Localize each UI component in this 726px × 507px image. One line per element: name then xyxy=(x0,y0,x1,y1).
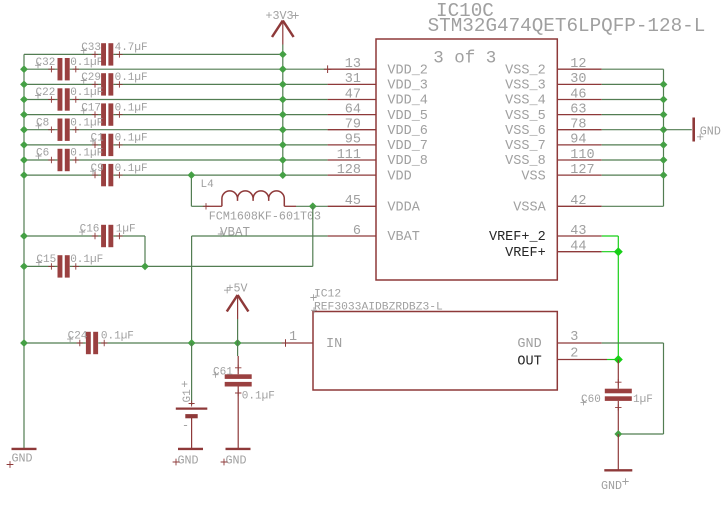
svg-text:C60: C60 xyxy=(581,394,601,406)
junction right bus row 7 xyxy=(660,156,668,164)
capacitor C61 xyxy=(225,374,252,379)
capacitor C24 xyxy=(86,332,91,354)
junction left bus C15 row xyxy=(20,263,28,271)
wire to ground xyxy=(617,434,619,470)
junction right bus row 6 xyxy=(660,141,668,149)
svg-text:0.1µF: 0.1µF xyxy=(70,87,103,99)
svg-text:VDD_4: VDD_4 xyxy=(387,94,428,109)
pin stub VSS row 7 xyxy=(557,159,601,161)
svg-text:GND: GND xyxy=(601,479,622,493)
wire pin3 right xyxy=(602,342,664,344)
svg-text:47: 47 xyxy=(345,87,361,102)
svg-text:0.1µF: 0.1µF xyxy=(115,133,148,145)
svg-text:31: 31 xyxy=(345,72,361,87)
wire VSS row 3 to bus xyxy=(602,99,664,101)
wire row pin right 1 xyxy=(70,68,328,70)
svg-text:0.1µF: 0.1µF xyxy=(101,331,134,343)
battery G1 xyxy=(191,343,193,405)
wire +3V3 bus xyxy=(282,45,284,176)
svg-text:OUT: OUT xyxy=(517,354,541,369)
capacitor C17 xyxy=(101,103,106,125)
wire to GND symbol right xyxy=(664,129,692,131)
capacitor C6 xyxy=(58,149,63,171)
pin stub GND 3 xyxy=(557,342,601,344)
svg-text:C61: C61 xyxy=(213,366,233,378)
svg-text:VSS_5: VSS_5 xyxy=(505,109,546,124)
svg-text:GND: GND xyxy=(517,337,541,352)
junction VDDA node xyxy=(309,202,317,210)
svg-text:4.7µF: 4.7µF xyxy=(115,42,148,54)
junction row128 / L4 branch xyxy=(188,171,196,179)
pin stub VSS row 1 xyxy=(557,68,601,70)
svg-text:REF3033AIDBZRDBZ3-L: REF3033AIDBZRDBZ3-L xyxy=(314,302,443,314)
wire row pin right 3 xyxy=(70,99,328,101)
svg-text:GND: GND xyxy=(700,124,721,138)
svg-text:6: 6 xyxy=(353,224,361,239)
wire VREF+ to vertical xyxy=(602,251,619,253)
svg-text:VDD_8: VDD_8 xyxy=(387,154,428,169)
pin stub OUT 2 xyxy=(557,359,607,361)
svg-text:FCM1608KF-601T03: FCM1608KF-601T03 xyxy=(209,210,321,224)
+3V3 supply symbol xyxy=(272,21,294,38)
svg-text:GND: GND xyxy=(226,454,247,468)
op IC10C box xyxy=(376,39,557,280)
wire OUT down to C60 xyxy=(617,360,619,389)
svg-text:13: 13 xyxy=(345,57,361,72)
svg-text:VSS_6: VSS_6 xyxy=(505,124,546,139)
junction left bus row 5 xyxy=(20,126,28,134)
svg-text:64: 64 xyxy=(345,102,361,117)
svg-text:3 of 3: 3 of 3 xyxy=(433,49,496,69)
capacitor C33 xyxy=(101,43,106,65)
wire C61 to ground xyxy=(237,387,239,449)
pin stub VSS row 2 xyxy=(557,83,601,85)
svg-text:VDD: VDD xyxy=(387,169,411,184)
wire C24 row right to IN xyxy=(98,342,285,344)
svg-text:IC12: IC12 xyxy=(314,289,341,301)
junction left bus row 7 xyxy=(20,156,28,164)
pin stub VBAT xyxy=(328,235,376,237)
wire VBAT down to battery row xyxy=(191,236,193,343)
junction +3V3 bus row 4 xyxy=(279,111,287,119)
svg-text:L4: L4 xyxy=(201,179,215,191)
wire VSS row 8 to bus xyxy=(602,174,664,176)
svg-text:C6: C6 xyxy=(36,148,49,160)
junction left bus row 8 xyxy=(20,171,28,179)
wire OUT to node xyxy=(607,359,618,361)
svg-text:0.1µF: 0.1µF xyxy=(115,102,148,114)
wire row pin right 7 xyxy=(70,159,328,161)
junction right bus row 8 xyxy=(660,171,668,179)
capacitor C60 xyxy=(605,389,632,394)
svg-text:VSS_4: VSS_4 xyxy=(505,94,546,109)
wire VDDA down to C15 row xyxy=(312,206,314,266)
svg-text:+5V: +5V xyxy=(227,281,248,295)
svg-text:111: 111 xyxy=(337,148,361,163)
ground left bus xyxy=(12,448,37,450)
svg-text:0.1µF: 0.1µF xyxy=(242,391,275,403)
capacitor C1 xyxy=(101,134,106,156)
wire VSS row 5 to bus xyxy=(602,129,664,131)
wire row pin left 1 xyxy=(24,68,57,70)
ground under C61 xyxy=(226,448,251,450)
pin stub VSS row 5 xyxy=(557,129,601,131)
junction right bus row 5 xyxy=(660,126,668,134)
wire row pin right 4 xyxy=(114,114,328,116)
capacitor C16 xyxy=(101,225,106,247)
pin stub VSS row 3 xyxy=(557,99,601,101)
capacitor C32 xyxy=(58,58,63,80)
svg-text:95: 95 xyxy=(345,133,361,148)
svg-text:1: 1 xyxy=(289,330,297,345)
wire C33 row right xyxy=(114,53,283,55)
wire row pin right 8 xyxy=(114,174,328,176)
svg-text:C8: C8 xyxy=(36,117,49,129)
svg-text:VSS_8: VSS_8 xyxy=(505,154,546,169)
pin stub VDD row 4 xyxy=(328,114,376,116)
pin stub VSSA xyxy=(557,205,601,207)
svg-text:C1: C1 xyxy=(91,133,105,145)
pin stub VREF+ xyxy=(557,251,601,253)
pin stub VREF+_2 xyxy=(557,235,601,237)
wire row pin left 7 xyxy=(24,159,57,161)
wire row pin left 8 xyxy=(24,174,101,176)
wire row pin right 2 xyxy=(114,83,328,85)
svg-text:C32: C32 xyxy=(36,57,56,69)
wire VSSA to bus xyxy=(602,205,664,207)
svg-text:C29: C29 xyxy=(81,72,101,84)
wire VSS row 2 to bus xyxy=(602,83,664,85)
ground right xyxy=(692,118,695,142)
junction +3V3 bus row 6 xyxy=(279,141,287,149)
junction +3V3 bus row 7 xyxy=(279,156,287,164)
svg-text:IN: IN xyxy=(326,337,342,352)
svg-text:-: - xyxy=(182,419,189,433)
wire VSS row 6 to bus xyxy=(602,144,664,146)
svg-text:VSS_2: VSS_2 xyxy=(505,63,546,78)
pin stub VDD row 7 xyxy=(328,159,376,161)
svg-text:GND: GND xyxy=(12,451,33,465)
junction +3V3 bus row 1 xyxy=(279,65,287,73)
pin stub VSS row 8 xyxy=(557,174,601,176)
capacitor C8 xyxy=(58,119,63,141)
wire VSS row 7 to bus xyxy=(602,159,664,161)
pin stub VDDA xyxy=(328,205,376,207)
wire left GND bus xyxy=(23,54,25,449)
junction right bus row 2 xyxy=(660,81,668,89)
svg-text:C15: C15 xyxy=(36,254,56,266)
svg-text:128: 128 xyxy=(337,163,361,178)
wire C15 row left xyxy=(24,265,57,267)
svg-text:C33: C33 xyxy=(81,42,101,54)
ground under C60 xyxy=(604,469,632,471)
svg-text:VREF+: VREF+ xyxy=(505,246,546,261)
wire to L4 pin 1 xyxy=(191,205,206,207)
junction +3V3 bus row 5 xyxy=(279,126,287,134)
svg-text:+: + xyxy=(181,378,188,392)
wire VSS row 4 to bus xyxy=(602,114,664,116)
svg-text:GND: GND xyxy=(178,454,199,468)
svg-text:C16: C16 xyxy=(80,224,100,236)
junction left bus row 4 xyxy=(20,111,28,119)
svg-text:C9: C9 xyxy=(91,163,104,175)
svg-text:0.1µF: 0.1µF xyxy=(70,117,103,129)
svg-text:VDD_3: VDD_3 xyxy=(387,79,428,94)
svg-text:0.1µF: 0.1µF xyxy=(70,148,103,160)
junction +5V node xyxy=(234,339,242,347)
wire +5V to row xyxy=(237,319,239,343)
wire C16 row left xyxy=(24,235,101,237)
wire C15 row right xyxy=(70,265,313,267)
pin stub VDD row 5 xyxy=(328,129,376,131)
wire L4 to VDDA xyxy=(296,205,328,207)
svg-text:VSS: VSS xyxy=(521,169,545,184)
svg-text:1µF: 1µF xyxy=(116,224,136,236)
pin stub VSS row 4 xyxy=(557,114,601,116)
wire VBAT row xyxy=(192,235,328,237)
capacitor C15 xyxy=(58,255,63,277)
wire right GND bus xyxy=(663,69,665,206)
capacitor C29 xyxy=(101,73,106,95)
svg-text:0.1µF: 0.1µF xyxy=(70,57,103,69)
svg-text:VSS_3: VSS_3 xyxy=(505,79,546,94)
svg-text:1µF: 1µF xyxy=(633,394,653,406)
pin stub VSS row 6 xyxy=(557,144,601,146)
svg-text:VSSA: VSSA xyxy=(513,201,546,216)
op IC12 box xyxy=(313,312,557,391)
junction +3V3 bus row 3 xyxy=(279,96,287,104)
svg-text:VSS_7: VSS_7 xyxy=(505,139,546,154)
wire +5V node down to C61 xyxy=(237,343,239,356)
svg-text:0.1µF: 0.1µF xyxy=(70,254,103,266)
junction C60 bottom xyxy=(614,430,622,438)
wire C16 row right xyxy=(114,235,146,237)
pin stub VDD row 1 xyxy=(328,68,376,70)
wire row pin left 2 xyxy=(24,83,101,85)
svg-text:0.1µF: 0.1µF xyxy=(115,163,148,175)
junction +3V3 bus row 2 xyxy=(279,81,287,89)
svg-text:VDD_5: VDD_5 xyxy=(387,109,428,124)
svg-text:45: 45 xyxy=(345,194,361,209)
svg-text:VDD_6: VDD_6 xyxy=(387,124,428,139)
pin stub IN xyxy=(286,342,314,344)
+5V supply symbol xyxy=(227,295,249,312)
pin stub VDD row 6 xyxy=(328,144,376,146)
wire row pin left 3 xyxy=(24,99,57,101)
wire loop to C60 bottom xyxy=(618,433,663,435)
inductor L4 xyxy=(222,191,284,206)
junction right bus row 3 xyxy=(660,96,668,104)
svg-text:VDD_7: VDD_7 xyxy=(387,139,428,154)
wire row pin left 6 xyxy=(24,144,101,146)
ground under G1 xyxy=(178,448,203,450)
svg-text:VBAT: VBAT xyxy=(220,225,251,239)
capacitor C9 xyxy=(101,164,106,186)
junction OUT node xyxy=(614,355,623,364)
wire VREF+_2 to vertical xyxy=(602,235,619,237)
wire C24 row left xyxy=(24,342,86,344)
svg-text:C17: C17 xyxy=(81,102,101,114)
wire row pin left 4 xyxy=(24,114,101,116)
junction left bus row 3 xyxy=(20,96,28,104)
junction right bus row 4 xyxy=(660,111,668,119)
junction battery node xyxy=(188,339,196,347)
svg-text:STM32G474QET6LPQFP-128-L: STM32G474QET6LPQFP-128-L xyxy=(428,15,706,37)
pin stub VDD row 3 xyxy=(328,99,376,101)
capacitor C22 xyxy=(58,88,63,110)
svg-text:VDD_2: VDD_2 xyxy=(387,63,428,78)
junction VREF+ pin 44 xyxy=(614,247,623,256)
svg-text:0.1µF: 0.1µF xyxy=(115,72,148,84)
junction C16/C15 row xyxy=(141,263,149,271)
wire C60 to loop xyxy=(617,401,619,434)
svg-text:VREF+_2: VREF+_2 xyxy=(489,230,546,245)
junction left bus row 2 xyxy=(20,81,28,89)
wire row pin right 6 xyxy=(114,144,328,146)
junction +3V3 bus row 8 xyxy=(279,171,287,179)
wire VSS row 1 to bus xyxy=(602,68,664,70)
wire row pin left 5 xyxy=(24,129,57,131)
wire C33 row left xyxy=(24,53,101,55)
svg-text:+3V3: +3V3 xyxy=(266,9,294,23)
junction left bus row 1 xyxy=(20,65,28,73)
lead C61 top xyxy=(237,356,239,374)
junction left bus C16 row xyxy=(20,232,28,240)
svg-text:C22: C22 xyxy=(36,87,56,99)
wire VREF vertical xyxy=(617,236,619,360)
junction +3V3 bus row 0 xyxy=(279,51,287,59)
svg-text:79: 79 xyxy=(345,118,361,133)
pin stub VDD row 8 xyxy=(328,174,376,176)
wire 3V3 bus down to L4 xyxy=(190,175,192,206)
wire row pin right 5 xyxy=(70,129,328,131)
svg-text:VDDA: VDDA xyxy=(387,201,420,216)
junction left bus C24 row xyxy=(20,339,28,347)
junction left bus row 6 xyxy=(20,141,28,149)
pin stub VDD row 2 xyxy=(328,83,376,85)
svg-text:VBAT: VBAT xyxy=(387,230,419,245)
wire C16 down to C15 row xyxy=(144,236,146,266)
wire pin3 loop down xyxy=(663,343,665,434)
svg-text:C24: C24 xyxy=(68,331,88,343)
